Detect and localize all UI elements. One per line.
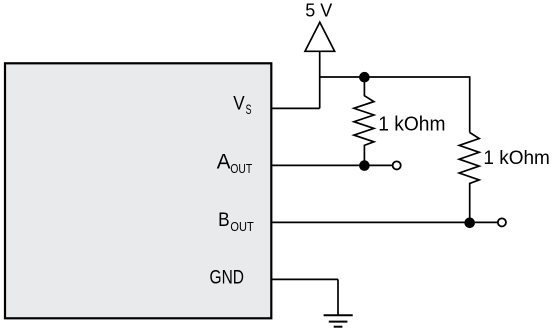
svg-text:OUT: OUT (230, 161, 252, 176)
IC block U1 (5, 63, 271, 318)
node: junction dot at R2 bottom / BOUT (464, 218, 475, 229)
resistor R2 1 kOhm (459, 133, 479, 223)
wire: GND vertical drop (337, 279, 339, 315)
wire: AOUT pin to open terminal (271, 164, 392, 166)
svg-text:GND: GND (210, 266, 245, 288)
node: junction dot at R1 bottom / AOUT (359, 160, 370, 171)
wire: 5V vertical from triangle to VS line (319, 51, 321, 108)
terminal: open circle AOUT (393, 161, 401, 169)
wire: VS pin to supply vertical (271, 107, 320, 109)
svg-text:OUT: OUT (230, 219, 253, 234)
svg-text:5 V: 5 V (305, 0, 333, 20)
terminal: open circle BOUT (498, 218, 506, 226)
svg-text:S: S (246, 102, 252, 117)
svg-text:A: A (217, 151, 231, 174)
node: junction dot at R1 top (359, 72, 370, 83)
svg-text:B: B (218, 209, 230, 231)
svg-text:V: V (233, 94, 245, 115)
svg-text:1 kOhm: 1 kOhm (378, 114, 445, 136)
resistor R1 1 kOhm (354, 77, 374, 166)
wire: rail down to R2 (469, 76, 471, 132)
power supply symbol (5V triangle) (305, 22, 335, 51)
ground symbol (324, 315, 353, 326)
wire: BOUT pin to open terminal (271, 221, 498, 223)
svg-text:1 kOhm: 1 kOhm (483, 147, 550, 169)
wire: supply rail to right (320, 76, 470, 78)
wire: GND pin horizontal (271, 278, 338, 280)
